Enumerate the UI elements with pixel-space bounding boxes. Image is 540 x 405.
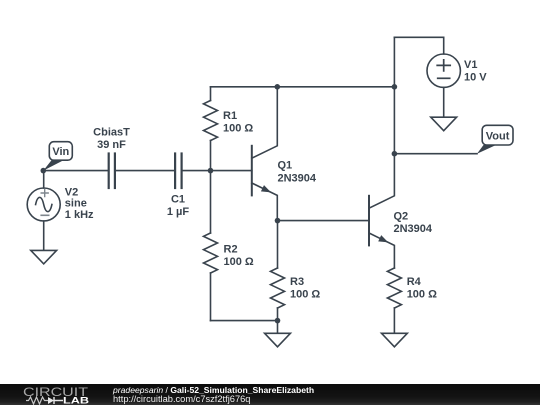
wire main input horizontal y=170.6 segment 1 [43, 170, 107, 172]
footer url line [113, 395, 250, 404]
svg-text:R4: R4 [407, 276, 422, 288]
svg-text:Q1: Q1 [278, 160, 293, 172]
footer bar [0, 384, 540, 405]
svg-text:Q2: Q2 [394, 210, 409, 222]
wire V1 rail vertical x=394.4 [393, 37, 395, 153]
flag Vout [477, 125, 513, 153]
wire between CbiasT and C1 [116, 170, 174, 172]
node at Q1 emitter / R3 / Q2 base [275, 218, 281, 224]
voltage source V1 [427, 54, 487, 87]
svg-text:LAB: LAB [63, 396, 89, 405]
voltage source V2 (sine) [27, 171, 94, 221]
wire top rail y=86.8 [211, 86, 395, 88]
svg-text:100 Ω: 100 Ω [290, 289, 320, 301]
wire V1 to ground [443, 87, 445, 117]
wire top rail to V1 [394, 37, 443, 54]
node at top rail / V1 rail [392, 84, 398, 90]
node at Q1 collector / top rail [275, 84, 281, 90]
svg-text:100 Ω: 100 Ω [407, 289, 437, 301]
svg-text:CbiasT: CbiasT [93, 127, 130, 139]
ground below R2/R3 [265, 333, 291, 347]
transistor Q2 2N3904 [369, 154, 433, 268]
svg-text:100 Ω: 100 Ω [224, 256, 254, 268]
svg-text:C1: C1 [171, 194, 185, 206]
svg-text:39 nF: 39 nF [97, 139, 126, 151]
svg-text:R1: R1 [223, 110, 237, 122]
node at center ground junction [275, 318, 281, 324]
svg-text:sine: sine [65, 197, 87, 209]
wire C1 to Q1 base [183, 170, 252, 172]
resistor R4 [387, 268, 437, 333]
wire R2 bottom to center ground node [211, 320, 278, 322]
svg-text:V1: V1 [464, 59, 477, 71]
node at Vin junction [41, 168, 47, 174]
wire Vout horizontal [394, 153, 477, 155]
svg-text:Vin: Vin [52, 146, 69, 158]
ground below V2 [31, 250, 57, 264]
svg-text:R2: R2 [224, 243, 238, 255]
ground below V1 [431, 117, 457, 131]
svg-text:1 µF: 1 µF [167, 206, 190, 218]
node at R1/R2/base junction [208, 168, 214, 174]
svg-text:2N3904: 2N3904 [394, 223, 433, 235]
svg-text:1 kHz: 1 kHz [65, 209, 94, 221]
resistor R1 [204, 87, 254, 171]
resistor R2 [204, 171, 254, 321]
svg-text:100 Ω: 100 Ω [223, 123, 253, 135]
svg-text:10 V: 10 V [464, 72, 487, 84]
wire center node to ground [277, 321, 279, 334]
node at Vout junction [392, 151, 398, 157]
resistor R3 [271, 221, 321, 321]
footer credit line [113, 386, 314, 395]
transistor Q1 2N3904 [252, 87, 317, 221]
svg-text:R3: R3 [290, 276, 304, 288]
capacitor C1 [167, 154, 190, 219]
svg-text:2N3904: 2N3904 [278, 173, 317, 185]
svg-text:Vout: Vout [486, 131, 510, 143]
flag Vin [43, 142, 72, 171]
ground below R4 [382, 333, 408, 347]
CircuitLab logo [22, 384, 117, 405]
wire Q1 emitter to Q2 base [278, 220, 370, 222]
capacitor CbiasT [93, 127, 130, 188]
wire V2 to ground [43, 221, 45, 250]
